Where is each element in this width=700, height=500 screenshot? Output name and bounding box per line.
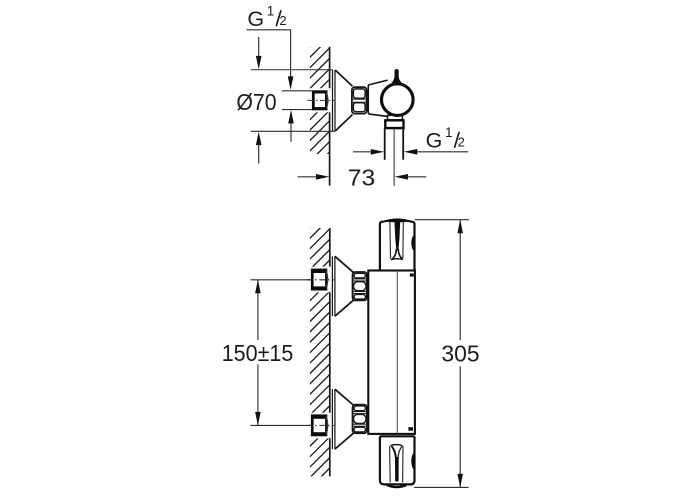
upper escutcheon cone (front view) xyxy=(335,256,353,316)
upper escutcheon face plate (front view) xyxy=(332,256,335,316)
leader line G 1/2 to wall nut xyxy=(247,30,291,77)
wall face line lower segment / 73 extension xyxy=(329,112,331,185)
svg-text:G: G xyxy=(426,128,443,152)
wall face line upper segment (top view) xyxy=(329,47,331,88)
button lower right xyxy=(408,427,413,431)
escutcheon face plate (top view) xyxy=(333,70,336,131)
svg-text:2: 2 xyxy=(458,135,465,150)
collar between nut and valve (top view) xyxy=(368,80,387,116)
dimension line 150+-15 xyxy=(257,280,259,340)
extension line upper union centerline xyxy=(250,279,311,281)
upper square wall nut (front view) xyxy=(311,269,328,291)
volume handle grip recess xyxy=(390,445,403,483)
body edge highlight line xyxy=(396,271,398,434)
dimension line 305 xyxy=(459,220,461,341)
extension line lower union centerline xyxy=(250,424,311,426)
label G 1/2 (wall connection thread) xyxy=(247,3,286,31)
svg-text:2: 2 xyxy=(279,13,286,28)
lower escutcheon face plate (front view) xyxy=(332,389,335,449)
lower escutcheon cone (front view) xyxy=(335,389,353,449)
thermostat body (front view) xyxy=(368,271,415,434)
dimension arrow O70 upper xyxy=(258,37,260,58)
lower union centerline dash-dot xyxy=(307,424,335,426)
escutcheon cone (top view) xyxy=(335,70,352,131)
union hex nut (top view) xyxy=(352,87,367,113)
temperature knob stem (top view) xyxy=(392,69,402,83)
upper union hex nut (front view) xyxy=(353,272,367,300)
extension line escutcheon top (O70) xyxy=(251,69,333,71)
wall face line (front view) xyxy=(329,228,331,476)
svg-text:150±15: 150±15 xyxy=(222,340,294,366)
temperature handle side dot xyxy=(411,235,414,251)
extension line wall nut top xyxy=(282,90,312,92)
svg-text:305: 305 xyxy=(441,341,479,367)
temperature handle (top, front view) xyxy=(380,219,415,271)
extension line escutcheon bottom (O70) xyxy=(251,130,335,132)
safe-stop button upper right xyxy=(410,273,414,276)
extension line body top xyxy=(415,219,469,221)
svg-text:73: 73 xyxy=(348,164,375,190)
temperature handle grip recess xyxy=(390,221,404,259)
outlet nut (top view) xyxy=(385,120,403,128)
svg-text:G: G xyxy=(247,7,264,31)
pipe centerline / 73 extension xyxy=(393,129,395,186)
union centerline dash-dot (top view) xyxy=(307,99,334,101)
dimension 73 right arrow xyxy=(395,174,409,180)
volume handle (bottom, front view) xyxy=(380,436,415,487)
outlet G1/2 dimension right arrow xyxy=(404,149,418,155)
dimension arrow O70 lower xyxy=(256,132,262,146)
label G 1/2 (shower outlet thread) xyxy=(426,125,465,153)
outlet G1/2 dimension left arrow xyxy=(353,151,371,153)
shower pipe (top view) xyxy=(385,129,404,160)
lower square wall nut (front view) xyxy=(311,414,328,436)
extension line body bottom xyxy=(414,486,468,488)
svg-text:1: 1 xyxy=(445,125,453,140)
extension line wall nut bottom xyxy=(282,109,312,111)
thermostat valve body circle (top view) xyxy=(382,84,414,116)
outlet flange (top view) xyxy=(388,115,403,120)
lower union hex nut (front view) xyxy=(353,405,367,434)
dimension arrow wall nut lower xyxy=(288,110,294,124)
dimension 73 left arrow xyxy=(298,176,316,178)
upper union centerline dash-dot xyxy=(307,279,335,281)
svg-text:Ø70: Ø70 xyxy=(236,89,276,115)
volume handle side dot xyxy=(411,453,414,470)
svg-text:1: 1 xyxy=(267,3,275,18)
square wall nut G1/2 (top view) xyxy=(312,90,328,110)
